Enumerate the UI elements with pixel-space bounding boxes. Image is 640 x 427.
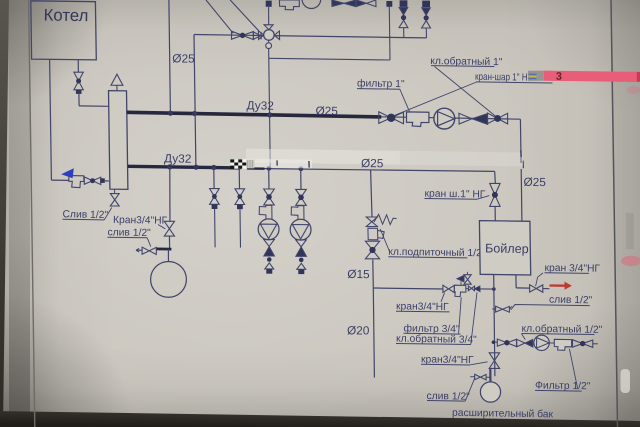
wire kotel supply drop: [77, 60, 79, 72]
stub strainer to check: [466, 288, 469, 290]
wire pump line: [381, 117, 520, 119]
svg-text:Бойлер: Бойлер: [485, 241, 529, 256]
reducer spring zigzag: [374, 214, 397, 224]
valve kran 3/4 NG hot water: [530, 285, 537, 292]
wire into 3-way valve top: [268, 7, 270, 25]
svg-text:Ø25: Ø25: [172, 51, 195, 65]
pipe bottom thick stub: [247, 167, 265, 170]
valve V1 kotel supply: [74, 72, 83, 81]
wire elbow to kran 3/4 hot: [516, 287, 529, 289]
drain arrow tip a: [136, 249, 139, 251]
leader kl.obratny to ball valve 2: [435, 67, 498, 118]
wire manifold safety stem: [116, 85, 118, 90]
wire return to strainer: [51, 179, 68, 181]
wire boiler drop right: [515, 275, 517, 288]
3-way valve handle: [266, 43, 272, 49]
leader kran sh.1 to valve: [477, 196, 489, 200]
strainer 3/4: [454, 285, 466, 296]
boiler box KOTEL: [31, 1, 97, 60]
drain arrowhead a: [510, 308, 513, 311]
drain bowtie right: [496, 306, 503, 312]
ball valve 2 assembly2: [573, 340, 583, 347]
tee bar left tank: [156, 247, 171, 250]
wire valve to tank (thick stub): [489, 368, 491, 382]
junction on top pipe x170: [168, 111, 173, 116]
striped grey blob: [246, 160, 254, 169]
boiler box BOILER: [479, 221, 530, 275]
top cluster: pump fragment: [302, 0, 321, 9]
underline kran-shar: [476, 82, 553, 83]
underline Sliv left: [63, 218, 105, 221]
junction assembly2: [492, 340, 496, 344]
leader Filtr 1/2: [569, 349, 577, 389]
stub drop to drain valve: [492, 308, 495, 310]
window border left: [29, 0, 35, 427]
wire to boiler top (lower): [520, 169, 523, 221]
cap flange to manifold: [100, 178, 105, 183]
leader kran3/4 makeup: [441, 293, 445, 302]
pipe bottom thin continuation: [265, 169, 495, 172]
wire manifold drain stem: [114, 189, 116, 193]
top cluster: filled bowtie 2: [356, 0, 366, 6]
riser wire x194: [194, 35, 196, 168]
leader kl.obratny 3/4: [471, 292, 477, 344]
svg-text:Ø25: Ø25: [315, 104, 338, 118]
stub to red arrow: [543, 288, 550, 290]
svg-text:Ду32: Ду32: [164, 151, 191, 165]
underline Filtr 1/2: [535, 389, 582, 392]
pump P1 triangle: [438, 112, 455, 126]
drain stub right tank: [470, 376, 475, 378]
drain arrow tip b: [136, 250, 139, 252]
stub to assembly2: [493, 341, 497, 343]
junction bottom pipe x196: [194, 165, 199, 170]
pump branch 2: [300, 169, 302, 190]
pump assembly2: [534, 335, 549, 350]
check valve cone on mixing line: [253, 32, 261, 39]
underline kran 3/4 hot: [545, 272, 589, 275]
check cone filled 3/4: [475, 286, 480, 291]
scrollbar artifact: [626, 213, 634, 249]
svg-text:Ø15: Ø15: [347, 267, 370, 281]
drain valve right tank: [475, 374, 481, 379]
junction on top pipe x194: [192, 111, 197, 116]
valve kran3/4 NG vertical right: [489, 353, 499, 361]
wire 3-way down to pipes: [269, 49, 271, 169]
safety valve triangle on manifold: [111, 74, 123, 85]
leader kran3/4 right: [470, 362, 487, 365]
ball valve on kotel return: [84, 177, 92, 184]
pipe Du32 top (thick): [127, 112, 382, 117]
expansion tank right: [480, 382, 500, 402]
check valve seat bar: [260, 32, 262, 40]
strainer on pump line: [407, 112, 429, 127]
junction makeup-boiler drop: [492, 287, 496, 291]
manifold drain valve: [110, 194, 119, 200]
stack valve B (check+ball): [422, 1, 430, 8]
wire to tank valve: [169, 167, 171, 221]
leader sliv to drain valve: [147, 238, 151, 247]
checkerboard artifact: [230, 159, 234, 162]
drain valve left tank: [142, 247, 149, 254]
red flow arrow: [550, 284, 565, 287]
riser wire x169: [169, 0, 171, 113]
assembly2 end stub: [593, 343, 598, 345]
underline kran3/4 right: [421, 363, 470, 366]
branch drain 1: [213, 168, 215, 189]
break tick on riser: [522, 161, 524, 169]
top cluster: strainer fragment: [279, 0, 299, 10]
underline kran sh.1: [425, 198, 478, 201]
leader kl.podpitochny: [380, 229, 389, 252]
leader Sliv to manifold drain: [104, 208, 112, 220]
wire corner down to boiler top: [519, 119, 522, 163]
junction on top pipe x270: [267, 112, 272, 117]
underline kl.obratny 1/2: [522, 334, 595, 335]
ball valve 2 pump line: [488, 113, 498, 124]
icon stripe blue2: [529, 78, 537, 80]
svg-text:3: 3: [556, 71, 562, 83]
underline kl.obratny: [431, 65, 494, 68]
expansion tank left: [151, 262, 187, 298]
underline sliv small: [108, 236, 148, 239]
wire diagonal from top 1: [206, 0, 233, 33]
pink smudge right edge: [621, 256, 640, 266]
three-way mixing valve: [264, 30, 275, 41]
pump branch 1: [268, 168, 270, 189]
makeup small valve: [366, 217, 377, 222]
branch drain 2: [238, 168, 240, 189]
check filled assembly2: [525, 340, 533, 348]
pressure reducer body: [368, 228, 384, 240]
makeup valve with ball: [365, 241, 379, 250]
wire makeup riser mid: [372, 260, 375, 288]
wire makeup horizontal: [373, 288, 443, 289]
junction bottom pipe x301: [299, 166, 304, 171]
leader filtr 3/4: [459, 297, 462, 333]
ball valve on mixing line: [232, 31, 243, 39]
svg-text:Ø25: Ø25: [523, 175, 546, 189]
wire makeup riser upper: [371, 170, 372, 217]
wire pipe corner to sh1 valve: [494, 171, 497, 183]
wire sh1 valve to boiler top: [494, 206, 496, 220]
ball valve assembly2: [497, 339, 507, 346]
junction bottom pipe x214: [211, 165, 216, 170]
underline kran3/4 makeup: [396, 310, 450, 313]
underline kl.podpitochny: [388, 257, 467, 258]
cap above 3-way valve: [266, 1, 272, 7]
wire tee to tank: [167, 249, 169, 262]
underline filtr 1: [357, 88, 400, 91]
manifold collector: [109, 91, 128, 190]
valve kran sh.1 NG: [490, 183, 500, 195]
wire kotel return drop: [50, 59, 52, 180]
wire cap to manifold: [105, 180, 109, 182]
leader Kran3/4 to valve: [158, 225, 165, 229]
white overlay band (edit boxes): [246, 149, 400, 165]
darker area right of window border: [611, 0, 640, 427]
svg-text:Ø25: Ø25: [361, 156, 384, 170]
svg-text:Ø20: Ø20: [347, 323, 370, 337]
wire loop right riser: [388, 7, 391, 60]
wire valve to tee: [168, 236, 170, 249]
wire mixing line y35: [194, 35, 427, 38]
small check bowtie 3/4: [468, 286, 471, 291]
wire loop bottom: [269, 58, 390, 60]
junction bottom pipe x269: [267, 166, 272, 171]
check valve cone hollow: [459, 113, 472, 124]
wire drain stub left tank: [136, 249, 142, 251]
leader sliv right tank: [465, 378, 474, 401]
vent valve above strainer: [457, 276, 464, 282]
leader kran-shar to ball valve 1: [394, 82, 477, 116]
wire elbow to manifold top left: [79, 105, 109, 107]
pink bar right end tick: [637, 72, 640, 82]
stem 3-way to handle: [268, 40, 270, 43]
stack valve A (check+ball): [400, 0, 408, 7]
pump P1: [434, 108, 455, 129]
pink highlight bar over text: [544, 71, 640, 82]
underline sliv right tank: [427, 400, 465, 403]
blue flow arrow (drain): [61, 168, 74, 178]
strainer 1/2 assembly2: [554, 339, 571, 350]
icon stripe yellow: [529, 75, 537, 77]
strainer on kotel return: [69, 176, 84, 188]
wire drain jog right: [512, 305, 590, 309]
wire diagonal from top 2: [230, 0, 259, 31]
ball valve 1 pump line: [379, 112, 391, 124]
check valve cone filled: [472, 114, 488, 125]
drain arrowhead b: [510, 306, 513, 308]
monitor bezel left: [0, 0, 9, 427]
leader kl.obratny 1/2: [522, 334, 526, 340]
svg-text:расширительный бак: расширительный бак: [452, 407, 554, 421]
valve kran3/4 on makeup: [443, 285, 449, 292]
window border right: [611, 0, 618, 427]
leader filtr to strainer: [400, 89, 410, 111]
leader kran 3/4 hot: [536, 273, 543, 286]
valve Kran3/4 left tank: [164, 221, 174, 228]
wire O20 riser lower: [373, 288, 374, 378]
cap under valve V1: [76, 90, 82, 94]
check hollow assembly2: [517, 339, 525, 347]
underline kl.obratny 3/4: [396, 344, 471, 345]
underline filtr 3/4: [404, 332, 461, 335]
monitor bezel bottom: [0, 411, 640, 427]
svg-text:Котел: Котел: [43, 6, 88, 26]
pump triangle assembly2: [537, 338, 550, 349]
stub pump to strainer2: [549, 342, 554, 344]
top cluster: filled bowtie 1: [332, 0, 344, 6]
cap on loop riser: [386, 1, 392, 7]
tick marks on band: [276, 160, 278, 165]
pipe Du32 bottom (thick): [128, 166, 241, 168]
wire boiler drop left: [494, 275, 495, 377]
screen left margin shading: [9, 0, 30, 427]
junction bottom pipe x170: [167, 164, 172, 169]
svg-text:слив 1/2": слив 1/2": [549, 295, 593, 307]
icon stripe blue: [529, 73, 537, 75]
wire valve V1 to elbow: [78, 94, 80, 106]
wire check to boiler drop: [480, 288, 494, 290]
